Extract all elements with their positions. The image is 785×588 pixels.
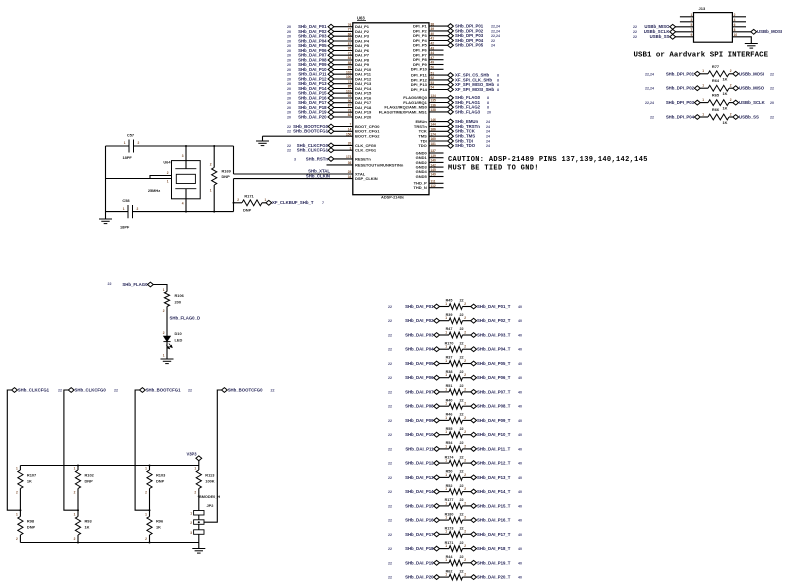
wire R66 to USBb_SS — [729, 116, 733, 118]
svg-text:SHb_DPI_P01: SHb_DPI_P01 — [666, 71, 695, 76]
svg-text:2: 2 — [145, 537, 147, 541]
node SHb_DAI_P14 off-page connector — [328, 86, 334, 91]
IC U63 ADSP-21489 DSP body — [353, 23, 429, 195]
svg-text:22: 22 — [388, 533, 392, 537]
wire net XF_SPI_MOSI_SHb — [429, 89, 451, 91]
U63 refdes underline — [357, 20, 366, 22]
node SHb_DAI_P18_T off-page connector — [471, 546, 477, 551]
node SHb_DAI_P01 off-page connector — [328, 24, 334, 29]
node SHb_DPI_P01 off-page connector — [694, 71, 700, 76]
svg-text:SHb_DPI_P05: SHb_DPI_P05 — [455, 43, 484, 48]
junction R169 top / top wire — [213, 145, 215, 147]
capacitor C58 18PF — [128, 205, 133, 218]
wire R77 to USBb_MOSI — [729, 73, 733, 75]
svg-text:2: 2 — [464, 487, 466, 491]
wire stub DPI_P10 — [429, 68, 444, 70]
wire net SHb_FLAG1 — [429, 102, 451, 104]
svg-text:SHb_DAI_P10: SHb_DAI_P10 — [405, 432, 434, 437]
svg-text:SHb_DAI_P05_T: SHb_DAI_P05_T — [477, 361, 511, 366]
svg-text:20: 20 — [487, 110, 491, 114]
wire R169 to bottom — [213, 185, 215, 212]
svg-text:SHb_CLKCFG0: SHb_CLKCFG0 — [75, 387, 107, 392]
wire net SHb_FLAG2 — [429, 106, 451, 108]
svg-text:SHb_DAI_P11: SHb_DAI_P11 — [405, 446, 434, 451]
svg-text:77: 77 — [348, 28, 352, 32]
svg-text:1: 1 — [445, 402, 447, 406]
svg-text:100: 100 — [346, 75, 352, 79]
resistor R113 100K — [196, 470, 201, 489]
wire stub DPI_P7 — [429, 54, 444, 56]
node SHb_TDI off-page connector — [448, 139, 454, 144]
junction top rail — [149, 465, 151, 467]
svg-text:SHb_DAI_P07_T: SHb_DAI_P07_T — [477, 389, 511, 394]
wire XTAL rail down to XTAL wire — [233, 146, 235, 174]
svg-text:22: 22 — [388, 447, 392, 451]
svg-text:R169: R169 — [222, 169, 232, 174]
svg-text:JP2: JP2 — [207, 503, 215, 508]
node SHb_DAI_P13 off-page connector — [328, 81, 334, 86]
wire V3P3 rail — [20, 465, 198, 467]
resistor R170 22 — [449, 346, 463, 352]
svg-text:1: 1 — [124, 141, 126, 145]
svg-text:2: 2 — [730, 98, 732, 102]
svg-text:1: 1 — [445, 330, 447, 334]
node SHb_FLAG0 off-page connector — [448, 95, 454, 100]
svg-text:GND5: GND5 — [416, 174, 428, 179]
node SHb_DPI_P02 off-page connector — [694, 86, 700, 91]
svg-text:SHb_FLAG0: SHb_FLAG0 — [122, 282, 148, 287]
svg-text:J13: J13 — [699, 6, 706, 11]
svg-text:20: 20 — [287, 73, 291, 77]
wire net XF_SPI_CLK_SHb — [429, 79, 451, 81]
svg-text:22: 22 — [460, 512, 464, 516]
svg-text:1: 1 — [145, 467, 147, 471]
svg-text:24: 24 — [486, 130, 490, 134]
svg-text:20: 20 — [287, 68, 291, 72]
node USBb_MOSI off-page connector — [751, 29, 757, 34]
resistor R107 1K — [18, 470, 23, 489]
svg-text:22: 22 — [388, 476, 392, 480]
svg-text:DPI_P14: DPI_P14 — [411, 87, 428, 92]
svg-text:20: 20 — [287, 96, 291, 100]
svg-text:22: 22 — [388, 519, 392, 523]
svg-text:22: 22 — [287, 149, 291, 153]
svg-text:95: 95 — [348, 94, 352, 98]
svg-text:R103: R103 — [156, 473, 166, 478]
crystal plates — [175, 169, 196, 189]
svg-text:40: 40 — [518, 319, 522, 323]
wire R52 to SHb_DAI_P14_T — [463, 491, 471, 493]
wire R38 to SHb_DAI_P06_T — [463, 377, 471, 379]
svg-text:22: 22 — [388, 462, 392, 466]
svg-text:SHb_FLAG0_D: SHb_FLAG0_D — [170, 316, 201, 321]
wire D10 cathode to ground — [166, 342, 168, 359]
svg-text:24: 24 — [486, 144, 490, 148]
svg-text:22: 22 — [770, 72, 774, 76]
svg-text:22: 22 — [388, 376, 392, 380]
svg-text:2: 2 — [74, 491, 76, 495]
svg-text:2: 2 — [464, 558, 466, 562]
node SHb_DPI_P03 off-page connector — [448, 33, 454, 38]
node SHb_DAI_P17 off-page connector — [328, 100, 334, 105]
svg-text:1: 1 — [445, 302, 447, 306]
svg-text:2: 2 — [464, 330, 466, 334]
svg-text:8: 8 — [487, 106, 489, 110]
svg-text:100K: 100K — [205, 479, 214, 484]
node SHb_FLAG0 off-page connector — [148, 282, 154, 287]
svg-text:SHb_CLKCFG1: SHb_CLKCFG1 — [18, 387, 50, 392]
wire R102 to R93 — [77, 489, 79, 517]
node SHb_DAI_P12 off-page connector — [434, 461, 440, 466]
JP2 pad pin 1 — [194, 511, 204, 516]
wire V3P3 to rail — [198, 461, 200, 466]
wire R107 to R98 — [19, 489, 21, 517]
svg-text:22: 22 — [460, 441, 464, 445]
svg-text:40: 40 — [518, 504, 522, 508]
wire SHb_DPI_P03 to R65 — [700, 102, 708, 104]
wire R177 to SHb_DAI_P15_T — [463, 505, 471, 507]
wire net USBb_MOSI — [732, 31, 751, 33]
svg-text:84: 84 — [348, 56, 352, 60]
resistor R47 22 — [449, 332, 463, 338]
wire C58 to CLKIN rail — [133, 211, 234, 213]
svg-text:R102: R102 — [85, 473, 95, 478]
resistor R37 22 — [449, 361, 463, 367]
svg-text:20: 20 — [287, 92, 291, 96]
node SHb_DPI_P01 off-page connector — [448, 24, 454, 29]
svg-text:1: 1 — [445, 387, 447, 391]
node SHb_FLAG2 off-page connector — [448, 105, 454, 110]
svg-text:R96: R96 — [156, 519, 164, 524]
svg-text:1: 1 — [445, 316, 447, 320]
svg-text:22: 22 — [271, 388, 275, 392]
ground J13 pin 10 — [745, 44, 758, 49]
node SHb_DAI_P10 off-page connector — [434, 432, 440, 437]
svg-text:SHb_DAI_P20: SHb_DAI_P20 — [298, 114, 327, 119]
node SHb_DAI_P17_T off-page connector — [471, 532, 477, 537]
svg-text:8: 8 — [497, 88, 499, 92]
wire net SHb_EMUn — [429, 121, 451, 123]
wire SHb_DAI_P06 to R38 — [440, 377, 450, 379]
svg-text:2: 2 — [464, 373, 466, 377]
svg-text:R93: R93 — [85, 519, 93, 524]
wire pin10 to ground — [732, 37, 751, 44]
svg-text:22,24: 22,24 — [645, 72, 654, 76]
svg-text:40: 40 — [518, 561, 522, 565]
svg-text:40: 40 — [518, 490, 522, 494]
svg-text:40: 40 — [518, 362, 522, 366]
svg-text:22: 22 — [388, 419, 392, 423]
svg-text:87: 87 — [348, 104, 352, 108]
svg-text:SHb_FLAG3: SHb_FLAG3 — [455, 109, 481, 114]
wire C57 to XTAL rail — [134, 145, 234, 147]
wire SHb_DAI_P07 to R51 — [440, 391, 450, 393]
svg-text:20: 20 — [287, 101, 291, 105]
svg-text:USBb_SS: USBb_SS — [650, 34, 670, 39]
node SHb_DAI_P03 off-page connector — [328, 34, 334, 39]
wire net SHb_DPI_P03 — [429, 35, 451, 37]
svg-text:22: 22 — [460, 313, 464, 317]
wire net XF_SPI_MISO_SHb — [429, 84, 451, 86]
svg-text:SHb_DAI_P08: SHb_DAI_P08 — [405, 404, 434, 409]
svg-text:82: 82 — [348, 113, 352, 117]
svg-text:22: 22 — [287, 144, 291, 148]
wire net SHb_TDI — [429, 140, 451, 142]
svg-text:MUST BE TIED TO GND!: MUST BE TIED TO GND! — [448, 165, 539, 173]
svg-text:2: 2 — [464, 573, 466, 577]
svg-text:SHb_DAI_P12_T: SHb_DAI_P12_T — [477, 461, 511, 466]
wire net USBb_SS — [675, 36, 693, 38]
node SHb_DAI_P07 off-page connector — [328, 53, 334, 58]
svg-text:1: 1 — [445, 416, 447, 420]
svg-text:DNP: DNP — [243, 208, 252, 213]
node SHb_FLAG3 off-page connector — [448, 110, 454, 115]
svg-text:SHb_DPI_P04: SHb_DPI_P04 — [666, 115, 695, 120]
svg-text:1: 1 — [163, 354, 165, 358]
svg-text:SHb_DAI_P16_T: SHb_DAI_P16_T — [477, 518, 511, 523]
svg-text:SHb_BOOTCFG1: SHb_BOOTCFG1 — [146, 387, 181, 392]
wire net SHb_DAI_P01 to U63 DAI_P1 — [331, 26, 353, 28]
LED D10 — [163, 336, 170, 342]
svg-text:SHb_BOOTCFG0: SHb_BOOTCFG0 — [228, 387, 263, 392]
svg-text:8: 8 — [487, 96, 489, 100]
svg-text:USB1 or Aardvark SPI INTERFACE: USB1 or Aardvark SPI INTERFACE — [634, 52, 769, 60]
resistor R46 22 — [449, 418, 463, 424]
resistor R169 vertical DNP — [212, 168, 217, 186]
svg-text:SHb_DPI_P03: SHb_DPI_P03 — [666, 100, 695, 105]
svg-text:2: 2 — [464, 345, 466, 349]
svg-text:1: 1 — [145, 513, 147, 517]
wire SHb_DAI_P13 to R50 — [440, 476, 450, 478]
wire net SHb_DAI_P07 to U63 DAI_P7 — [331, 54, 353, 56]
svg-text:1: 1 — [445, 444, 447, 448]
wire net USBb_MISO — [675, 26, 693, 28]
wire net SHb_DAI_P19 to U63 DAI_P19 — [331, 111, 353, 113]
svg-text:2: 2 — [138, 141, 140, 145]
node XF_SPI_MISO_SHb off-page connector — [448, 82, 454, 87]
svg-text:22,24: 22,24 — [491, 34, 500, 38]
wire gnd to C58 — [106, 211, 129, 213]
svg-text:2: 2 — [145, 491, 147, 495]
node SHb_DAI_P14_T off-page connector — [471, 489, 477, 494]
svg-text:22: 22 — [388, 433, 392, 437]
node SHb_RSTn off-page connector — [328, 157, 334, 162]
junction divider tap col3 — [149, 509, 151, 511]
svg-text:R65: R65 — [712, 93, 720, 98]
svg-text:8: 8 — [497, 74, 499, 78]
svg-text:1: 1 — [16, 467, 18, 471]
junction BOOTCFG0 at JP2 pin2 — [198, 521, 200, 523]
svg-text:2: 2 — [74, 537, 76, 541]
wire net SHb_BOOTCFG0 — [331, 126, 353, 128]
svg-text:22: 22 — [108, 282, 112, 286]
wire SHb_DAI_P03 to R47 — [440, 334, 450, 336]
wire net SHb_DAI_P05 to U63 DAI_P5 — [331, 45, 353, 47]
svg-text:1: 1 — [445, 359, 447, 363]
svg-text:DNP: DNP — [27, 525, 36, 530]
svg-text:1K: 1K — [723, 91, 728, 96]
wire to ground — [198, 543, 200, 549]
svg-text:18PF: 18PF — [120, 225, 130, 230]
wire SHb_DAI_P17 to R173 — [440, 533, 450, 535]
resistor R174 22 — [449, 460, 463, 466]
wire stub GND0 — [429, 152, 444, 154]
svg-text:R107: R107 — [27, 473, 36, 478]
svg-text:22: 22 — [460, 299, 464, 303]
svg-text:22: 22 — [633, 30, 637, 34]
svg-text:24: 24 — [486, 139, 490, 143]
svg-text:2: 2 — [167, 171, 169, 175]
svg-text:BOOT_CFG2: BOOT_CFG2 — [355, 134, 380, 139]
wire SHb_DAI_P14 to R52 — [440, 491, 450, 493]
JP2 pad pin 2 — [194, 520, 204, 525]
svg-text:SHb_BOOTCFG1: SHb_BOOTCFG1 — [293, 129, 328, 134]
resistor R93 1K — [75, 517, 80, 536]
resistor R54 22 — [449, 446, 463, 452]
junction top rail — [77, 465, 79, 467]
svg-text:1: 1 — [445, 501, 447, 505]
svg-text:22,24: 22,24 — [491, 25, 500, 29]
wire net SHb_RSTn — [331, 158, 353, 160]
node SHb_DAI_P20_T off-page connector — [471, 575, 477, 580]
wire net SHb_CLKCFG1 — [331, 149, 353, 151]
wire R180 to SHb_DAI_P16_T — [463, 519, 471, 521]
wire crystal case pin 1 to gnd — [150, 178, 172, 180]
node SHb_CLKCFG0 off-page connector — [68, 388, 74, 393]
svg-text:2: 2 — [464, 444, 466, 448]
node SHb_BOOTCFG0 off-page connector — [222, 388, 228, 393]
svg-text:2: 2 — [464, 473, 466, 477]
svg-text:85: 85 — [348, 37, 352, 41]
svg-text:1: 1 — [445, 473, 447, 477]
svg-text:25MHz: 25MHz — [148, 188, 160, 193]
wire SHb_DAI_P11 to R54 — [440, 448, 450, 450]
svg-text:2: 2 — [163, 309, 165, 313]
node SHb_CLKCFG0 off-page connector — [328, 143, 334, 148]
svg-text:2: 2 — [464, 501, 466, 505]
node USBb_SCLK off-page connector — [733, 100, 739, 105]
node SHb_DAI_P07 off-page connector — [434, 390, 440, 395]
wire net SHb_DAI_P02 to U63 DAI_P2 — [331, 30, 353, 32]
node SHb_DAI_P11_T off-page connector — [471, 447, 477, 452]
svg-text:22: 22 — [388, 334, 392, 338]
wire net SHb_DAI_P09 to U63 DAI_P9 — [331, 64, 353, 66]
node SHb_DAI_P15_T off-page connector — [471, 504, 477, 509]
svg-text:1: 1 — [445, 558, 447, 562]
wire R64 to USBb_MISO — [729, 87, 733, 89]
svg-text:72: 72 — [348, 51, 352, 55]
svg-text:SHb_DAI_P14_T: SHb_DAI_P14_T — [477, 489, 511, 494]
node SHb_DAI_P13 off-page connector — [434, 475, 440, 480]
svg-text:22: 22 — [770, 87, 774, 91]
svg-text:22: 22 — [388, 305, 392, 309]
wire net SHb_DAI_P17 to U63 DAI_P17 — [331, 102, 353, 104]
wire net SHb_DAI_P10 to U63 DAI_P10 — [331, 69, 353, 71]
wire SHb_DPI_P01 to R77 — [700, 73, 708, 75]
node SHb_DAI_P16 off-page connector — [434, 518, 440, 523]
node SHb_BOOTCFG1 off-page connector — [328, 129, 334, 134]
node USBb_SS off-page connector — [733, 115, 739, 120]
svg-text:22: 22 — [460, 555, 464, 559]
wire net SHb_DAI_P15 to U63 DAI_P15 — [331, 92, 353, 94]
wire R173 to SHb_DAI_P17_T — [463, 533, 471, 535]
wire net SHb_DAI_P13 to U63 DAI_P13 — [331, 83, 353, 85]
svg-text:20: 20 — [287, 30, 291, 34]
svg-text:2: 2 — [464, 359, 466, 363]
wire net USBb_SCLK — [675, 31, 693, 33]
node SHb_DAI_P19 off-page connector — [434, 560, 440, 565]
wire SHb_DAI_P20 to R62 — [440, 576, 450, 578]
node SHb_DAI_P13_T off-page connector — [471, 475, 477, 480]
svg-text:2: 2 — [137, 207, 139, 211]
wire R113 to JP2 — [198, 489, 200, 511]
svg-text:88: 88 — [348, 61, 352, 65]
svg-text:22: 22 — [460, 341, 464, 345]
wire rail to R103 — [149, 466, 151, 471]
ground for BOOT_CFG2 — [256, 141, 269, 146]
node V3P3 power connector — [196, 456, 202, 461]
svg-text:40: 40 — [518, 447, 522, 451]
svg-text:SHb_DAI_P08_T: SHb_DAI_P08_T — [477, 404, 511, 409]
wire SHb_CLKCFG1 to divider tap — [7, 390, 20, 510]
node SHb_DAI_P04_T off-page connector — [471, 347, 477, 352]
svg-text:40: 40 — [518, 519, 522, 523]
svg-text:USBb_MISO: USBb_MISO — [739, 86, 765, 91]
svg-text:22: 22 — [58, 388, 62, 392]
svg-text:22,24: 22,24 — [645, 101, 654, 105]
wire R103 to R96 — [149, 489, 151, 517]
svg-text:1: 1 — [445, 373, 447, 377]
svg-text:1: 1 — [74, 467, 76, 471]
svg-text:2: 2 — [190, 521, 192, 525]
node SHb_DAI_P06 off-page connector — [434, 375, 440, 380]
svg-text:20: 20 — [287, 77, 291, 81]
svg-text:CLK_CFG1: CLK_CFG1 — [355, 148, 377, 153]
node SHb_DAI_P08_T off-page connector — [471, 404, 477, 409]
wire rail to R113 — [198, 466, 200, 471]
node SHb_DAI_P14 off-page connector — [434, 489, 440, 494]
wire net SHb_FLAG0_D — [166, 307, 168, 337]
resistor R39 22 — [449, 318, 463, 324]
wire net SHb_DPI_P04 — [429, 40, 451, 42]
svg-text:20: 20 — [287, 39, 291, 43]
node SHb_CLKCFG1 off-page connector — [12, 388, 18, 393]
node SHb_DAI_P07_T off-page connector — [471, 390, 477, 395]
svg-text:8: 8 — [497, 78, 499, 82]
resistor R98 DNP — [18, 517, 23, 536]
svg-text:THD_N: THD_N — [413, 185, 426, 190]
ground LED — [161, 359, 174, 364]
ground pull network — [192, 549, 205, 554]
svg-text:SHb_DAI_P12: SHb_DAI_P12 — [405, 461, 434, 466]
wire R50 to SHb_DAI_P13_T — [463, 476, 471, 478]
svg-text:DSP_CLKIN: DSP_CLKIN — [355, 176, 378, 181]
node SHb_DPI_P02 off-page connector — [448, 29, 454, 34]
connector J13 body — [694, 13, 733, 43]
wire R96 to bottom rail — [149, 535, 151, 543]
wire R65 to USBb_SCLK — [729, 102, 733, 104]
svg-text:22: 22 — [388, 547, 392, 551]
wire SHb_DAI_P02 to R39 — [440, 320, 450, 322]
svg-text:200: 200 — [175, 300, 182, 305]
svg-text:22: 22 — [460, 427, 464, 431]
node SHb_CLKCFG1 off-page connector — [328, 148, 334, 153]
svg-text:TDO: TDO — [418, 143, 426, 148]
wire stub DPI_P6 — [429, 49, 444, 51]
node SHb_DAI_P03_T off-page connector — [471, 333, 477, 338]
wire bottom gnd rail — [20, 542, 198, 544]
svg-text:SHb_DAI_P04_T: SHb_DAI_P04_T — [477, 347, 511, 352]
